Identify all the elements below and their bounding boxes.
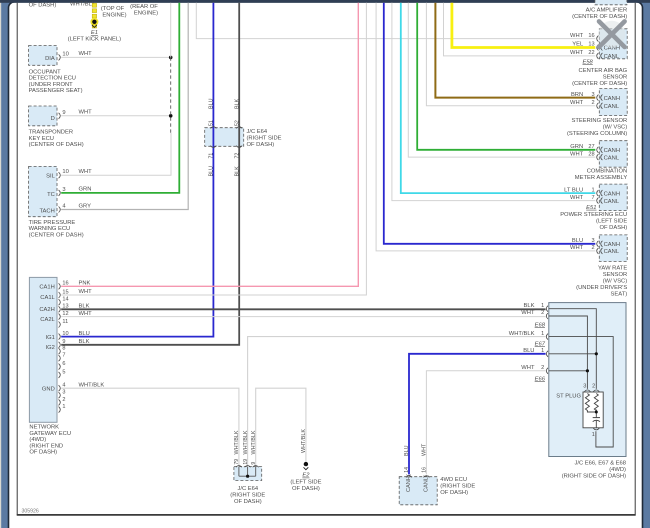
- svg-text:WHT/BLK: WHT/BLK: [243, 430, 249, 454]
- svg-text:(CENTER OF DASH): (CENTER OF DASH): [29, 232, 84, 238]
- junction inside J/C E64: [246, 475, 249, 478]
- svg-text:WHT/BLK: WHT/BLK: [79, 382, 105, 388]
- svg-text:(RIGHT SIDE: (RIGHT SIDE: [247, 136, 282, 142]
- svg-text:E1: E1: [91, 30, 98, 36]
- svg-text:E67: E67: [535, 341, 546, 347]
- wire GRY pin4 TACH: [61, 3, 188, 210]
- wire BLU pin3 yaw rate sensor: [384, 3, 596, 244]
- svg-text:IG1: IG1: [45, 335, 54, 341]
- svg-text:3: 3: [62, 390, 65, 396]
- svg-text:OF DASH): OF DASH): [234, 499, 262, 505]
- svg-text:(RIGHT END: (RIGHT END: [29, 443, 63, 449]
- wire BLK IG2 pin9 via J/C E64: [61, 3, 239, 345]
- svg-text:1: 1: [541, 331, 544, 337]
- svg-text:28: 28: [588, 151, 594, 157]
- svg-text:GRN: GRN: [570, 144, 583, 150]
- svg-text:WHT: WHT: [79, 311, 93, 317]
- junction resistor center tap: [595, 411, 598, 414]
- svg-text:8: 8: [62, 346, 65, 352]
- svg-text:TC: TC: [47, 192, 55, 198]
- svg-text:16: 16: [422, 467, 428, 473]
- svg-text:19: 19: [243, 459, 249, 465]
- junction block left edge pins: [546, 306, 548, 312]
- ground E1: [92, 20, 96, 24]
- svg-text:(CENTER OF DASH): (CENTER OF DASH): [572, 14, 627, 20]
- ground E2: [304, 462, 308, 466]
- svg-text:CANL: CANL: [604, 249, 620, 255]
- svg-text:WARNING ECU: WARNING ECU: [29, 226, 71, 232]
- wire WHT CA2L pin12: [61, 316, 545, 318]
- svg-text:YEL: YEL: [572, 42, 584, 48]
- svg-text:GRN: GRN: [79, 187, 92, 193]
- svg-text:NETWORK: NETWORK: [29, 425, 59, 431]
- svg-text:(UNDER DRIVER'S: (UNDER DRIVER'S: [576, 285, 627, 291]
- wire WHT pin22 center airbag: [444, 3, 596, 56]
- svg-text:WHT: WHT: [521, 365, 535, 371]
- svg-text:2: 2: [592, 384, 595, 390]
- svg-text:SENSOR: SENSOR: [603, 272, 627, 278]
- X marker annotation: [598, 21, 625, 48]
- svg-text:CA2L: CA2L: [40, 317, 55, 323]
- svg-text:LT BLU: LT BLU: [564, 187, 583, 193]
- connector yaw rate sensor: [599, 235, 627, 262]
- network gateway ECU pins: [59, 283, 61, 289]
- svg-text:9: 9: [62, 339, 65, 345]
- junction connector J/C E64 (middle): [205, 128, 244, 147]
- connector power steering ECU: [599, 184, 627, 211]
- svg-text:OF DASH): OF DASH): [440, 490, 468, 496]
- svg-text:D: D: [51, 116, 55, 122]
- svg-text:22: 22: [588, 50, 594, 56]
- wire WHT CA1L pin15: [61, 3, 366, 295]
- svg-text:J/C E64: J/C E64: [237, 486, 258, 492]
- wire WHT pin2 steering sensor: [426, 3, 595, 106]
- svg-text:CANL: CANL: [604, 104, 620, 110]
- svg-text:YAW RATE: YAW RATE: [598, 266, 627, 272]
- svg-text:OF DASH): OF DASH): [29, 450, 57, 456]
- svg-text:BLU: BLU: [523, 348, 534, 354]
- svg-text:BLK: BLK: [79, 339, 90, 345]
- resistor tie: [587, 411, 596, 414]
- svg-text:BLK: BLK: [234, 98, 240, 109]
- svg-text:SENSOR: SENSOR: [603, 74, 627, 80]
- svg-text:PASSENGER SEAT): PASSENGER SEAT): [29, 88, 83, 94]
- svg-text:WHT: WHT: [570, 33, 584, 39]
- wire WHT pin28 combination meter: [408, 3, 595, 157]
- svg-text:3: 3: [591, 238, 594, 244]
- svg-text:WHT: WHT: [79, 51, 93, 57]
- svg-text:(RIGHT SIDE: (RIGHT SIDE: [230, 492, 265, 498]
- svg-text:(W/ VSC): (W/ VSC): [603, 125, 628, 131]
- svg-text:OF DASH): OF DASH): [247, 142, 275, 148]
- svg-text:1: 1: [591, 187, 594, 193]
- svg-text:72: 72: [234, 153, 240, 159]
- svg-text:WHT: WHT: [570, 50, 584, 56]
- junction CANH tie: [595, 352, 598, 355]
- svg-text:BLU: BLU: [209, 166, 215, 177]
- svg-text:71: 71: [209, 153, 215, 159]
- svg-text:OF DASH): OF DASH): [292, 486, 320, 492]
- svg-text:(REAR OF: (REAR OF: [130, 4, 158, 10]
- title bar strip: [0, 0, 650, 3]
- wire WHT to 4WD ECU CANL: [426, 371, 545, 475]
- svg-text:51: 51: [209, 120, 215, 126]
- svg-text:GATEWAY ECU: GATEWAY ECU: [29, 431, 71, 437]
- svg-text:WHT: WHT: [521, 310, 535, 316]
- svg-text:CANH: CANH: [604, 191, 620, 197]
- svg-text:BLU: BLU: [404, 445, 410, 456]
- svg-text:KEY ECU: KEY ECU: [29, 136, 54, 142]
- svg-text:CANH: CANH: [604, 148, 620, 154]
- svg-text:(LEFT KICK PANEL): (LEFT KICK PANEL): [68, 37, 121, 43]
- svg-text:WHT: WHT: [570, 100, 584, 106]
- svg-text:OCCUPANT: OCCUPANT: [29, 69, 62, 75]
- page border: [16, 3, 18, 516]
- svg-text:BLU: BLU: [79, 331, 90, 337]
- svg-text:(CENTER OF DASH): (CENTER OF DASH): [29, 142, 84, 148]
- svg-text:4WD ECU: 4WD ECU: [440, 477, 467, 483]
- svg-text:WHT/BLK: WHT/BLK: [301, 429, 307, 453]
- svg-text:13: 13: [588, 42, 594, 48]
- svg-text:2: 2: [62, 397, 65, 403]
- svg-text:CANH(: CANH(: [406, 474, 412, 492]
- svg-text:5: 5: [62, 369, 65, 375]
- svg-text:A/C AMPLIFIER: A/C AMPLIFIER: [586, 8, 628, 14]
- svg-text:WHT: WHT: [79, 289, 93, 295]
- svg-text:2: 2: [541, 365, 544, 371]
- svg-text:9: 9: [62, 110, 65, 116]
- svg-text:(STEERING COLUMN): (STEERING COLUMN): [567, 131, 627, 137]
- svg-text:E2: E2: [302, 473, 310, 479]
- svg-text:WHT: WHT: [570, 195, 584, 201]
- svg-text:TACH: TACH: [39, 208, 54, 214]
- svg-text:7: 7: [591, 195, 594, 201]
- svg-text:(W/ VSC): (W/ VSC): [603, 279, 628, 285]
- svg-text:OF DASH): OF DASH): [29, 3, 57, 9]
- svg-text:J/C E66, E67 & E68: J/C E66, E67 & E68: [574, 461, 626, 467]
- connector - tire pressure warning ECU: [29, 166, 57, 216]
- svg-text:TRANSPONDER: TRANSPONDER: [29, 130, 73, 136]
- wire WHT pin2 yaw rate sensor: [376, 3, 595, 251]
- svg-text:CENTER AIR BAG: CENTER AIR BAG: [579, 68, 628, 74]
- junction splice A: [169, 56, 173, 60]
- wire BLU IG1 pin10 via J/C E64: [61, 3, 213, 337]
- capacitor C1 (ST plug): [593, 417, 600, 419]
- svg-text:BRN: BRN: [571, 92, 583, 98]
- svg-text:11: 11: [62, 319, 68, 325]
- svg-text:2: 2: [541, 310, 544, 316]
- svg-text:OF DASH): OF DASH): [599, 225, 627, 231]
- ECU box - network gateway ECU: [29, 277, 57, 422]
- svg-text:(TOP OF: (TOP OF: [101, 6, 125, 12]
- svg-text:J/C E64: J/C E64: [247, 129, 268, 135]
- svg-text:(LEFT SIDE: (LEFT SIDE: [290, 479, 321, 485]
- svg-text:CANH: CANH: [604, 242, 620, 248]
- junction block J/C E66 E67 E68: [549, 303, 626, 457]
- wire BLU to 4WD ECU CANH: [409, 354, 546, 475]
- svg-text:(4WD): (4WD): [609, 467, 626, 473]
- wire PNK CA1H pin16: [61, 3, 358, 287]
- svg-text:(4WD): (4WD): [29, 437, 46, 443]
- svg-text:3: 3: [591, 92, 594, 98]
- wire WHT pin10 SIL: [61, 133, 171, 175]
- svg-text:(CENTER OF DASH): (CENTER OF DASH): [572, 81, 627, 87]
- wire GRN pin3 TC: [61, 3, 179, 193]
- svg-text:WHT: WHT: [79, 169, 93, 175]
- svg-text:(RIGHT SIDE: (RIGHT SIDE: [440, 484, 475, 490]
- wire WHT/BLK to ground E2: [256, 388, 306, 466]
- svg-text:CANH: CANH: [604, 96, 620, 102]
- svg-text:6: 6: [62, 361, 65, 367]
- wire splice vertical WHT: [170, 3, 172, 58]
- internal wiring of junction block: [549, 309, 597, 389]
- svg-text:SIL: SIL: [46, 174, 55, 180]
- svg-text:WHT/BLK: WHT/BLK: [251, 430, 257, 454]
- svg-text:CA2H: CA2H: [39, 307, 54, 313]
- svg-text:(LEFT SIDE: (LEFT SIDE: [596, 219, 627, 225]
- svg-text:BLU: BLU: [572, 238, 583, 244]
- svg-text:E68: E68: [535, 322, 546, 328]
- svg-text:DIA: DIA: [45, 56, 55, 62]
- svg-text:79: 79: [234, 459, 240, 465]
- svg-text:STEERING SENSOR: STEERING SENSOR: [571, 118, 627, 124]
- svg-text:(UNDER FRONT: (UNDER FRONT: [29, 82, 74, 88]
- svg-text:WHT/BLK: WHT/BLK: [509, 331, 535, 337]
- highlighted WHT/BLK wire to ground E1: [92, 3, 96, 7]
- connector 4WD ECU: [399, 477, 437, 505]
- connector A/C amplifier (cut off): [595, 0, 627, 5]
- svg-text:27: 27: [588, 144, 594, 150]
- svg-text:CANL: CANL: [604, 155, 620, 161]
- svg-text:10: 10: [62, 51, 68, 57]
- svg-text:1: 1: [541, 303, 544, 309]
- connector center air bag sensor: [599, 29, 627, 59]
- svg-text:BLU: BLU: [209, 98, 215, 109]
- wire GRN pin27 combination meter: [417, 3, 595, 150]
- svg-text:CANL: CANL: [604, 199, 620, 205]
- svg-text:1: 1: [541, 348, 544, 354]
- connector DIA - occupant detection ECU: [29, 46, 57, 66]
- svg-text:CANL: CANL: [604, 54, 620, 60]
- svg-text:1: 1: [592, 432, 595, 438]
- svg-text:BLK: BLK: [234, 166, 240, 177]
- connector steering sensor: [599, 89, 627, 116]
- wire WHT pin7 power steering ECU: [392, 3, 595, 201]
- wire BLK CA2H pin13: [61, 308, 545, 310]
- connector combination meter: [599, 141, 627, 168]
- junction splice B: [169, 114, 173, 118]
- wire WHT pin10 DIA: [61, 56, 171, 58]
- svg-text:CANL(: CANL(: [423, 475, 429, 492]
- svg-text:(RIGHT SIDE OF DASH): (RIGHT SIDE OF DASH): [562, 474, 626, 480]
- svg-text:E66: E66: [535, 376, 546, 382]
- junction CANL tie: [586, 369, 589, 372]
- connector D - transponder key ECU: [29, 106, 57, 126]
- svg-text:GRY: GRY: [79, 203, 92, 209]
- wire WHT/BLK GND pin4: [61, 388, 239, 466]
- svg-text:POWER STEERING ECU: POWER STEERING ECU: [560, 212, 627, 218]
- svg-text:3: 3: [583, 384, 586, 390]
- svg-text:GND: GND: [42, 386, 55, 392]
- svg-text:10: 10: [62, 169, 68, 175]
- svg-text:52: 52: [234, 120, 240, 126]
- svg-text:ENGINE): ENGINE): [134, 11, 158, 17]
- wire LT BLU pin1 power steering ECU: [401, 3, 596, 193]
- svg-text:WHT: WHT: [570, 245, 584, 251]
- ST PLUG box: [583, 392, 603, 428]
- svg-text:ST PLUG: ST PLUG: [556, 394, 581, 400]
- svg-text:16: 16: [588, 33, 594, 39]
- svg-text:COMBINATION: COMBINATION: [587, 169, 627, 175]
- svg-text:2: 2: [591, 100, 594, 106]
- wire WHT pin16 center airbag: [196, 3, 595, 39]
- J/C E64 internal bus: [238, 467, 240, 477]
- wire WHT/BLK to J/C E67 pin1: [248, 337, 546, 467]
- svg-text:WHT: WHT: [79, 110, 93, 116]
- svg-text:CA1L: CA1L: [40, 295, 55, 301]
- svg-text:7: 7: [62, 353, 65, 359]
- resistor R2 (ST plug): [594, 394, 598, 412]
- svg-text:14: 14: [62, 297, 68, 303]
- wire YEL pin13 center airbag (highlighted): [452, 3, 595, 48]
- svg-text:DETECTION ECU: DETECTION ECU: [29, 76, 76, 82]
- svg-text:E51: E51: [586, 205, 596, 211]
- svg-text:305926: 305926: [22, 508, 39, 514]
- wire BRN pin3 steering sensor: [435, 3, 595, 98]
- svg-text:BLK: BLK: [524, 303, 535, 309]
- svg-text:1: 1: [62, 404, 65, 410]
- svg-text:WHT: WHT: [570, 151, 584, 157]
- svg-text:10: 10: [62, 331, 68, 337]
- svg-text:IG2: IG2: [45, 345, 54, 351]
- resistor R1 (ST plug): [585, 394, 589, 412]
- svg-text:E58: E58: [582, 59, 593, 65]
- svg-text:WHT: WHT: [422, 443, 428, 456]
- svg-text:SEAT): SEAT): [611, 292, 628, 298]
- wire WHT pin9 D: [61, 115, 171, 117]
- svg-text:2: 2: [591, 245, 594, 251]
- svg-text:METER ASSEMBLY: METER ASSEMBLY: [575, 175, 628, 181]
- svg-text:14: 14: [404, 467, 410, 473]
- svg-text:WHT/BLK: WHT/BLK: [234, 430, 240, 454]
- svg-text:CA1H: CA1H: [39, 285, 54, 291]
- junction connector J/C E64 (bottom): [234, 467, 262, 481]
- svg-text:TIRE PRESSURE: TIRE PRESSURE: [29, 220, 76, 226]
- svg-text:9: 9: [251, 462, 257, 465]
- svg-text:ENGINE): ENGINE): [102, 13, 126, 19]
